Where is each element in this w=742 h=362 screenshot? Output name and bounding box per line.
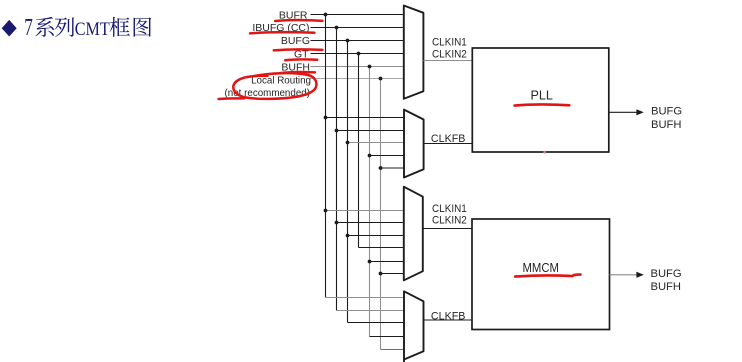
wire corner branch BUFG to mux M4 [348, 322, 404, 324]
junction IBUFG (CC) row B [335, 129, 339, 133]
arrowhead MMCM output [636, 272, 643, 278]
wire corner branch IBUFG (CC) to mux M4 [337, 310, 404, 312]
red underline IBUFG (CC) [250, 32, 315, 33]
junction Local Routing row C [379, 272, 383, 276]
PLL block [472, 48, 609, 152]
red ellipse around Local Routing (not recommended) [233, 73, 316, 99]
red underline MMCM [515, 275, 580, 277]
wire corner branch BUFH to mux M4 [370, 336, 404, 338]
wire IBUFG (CC) to mux M1 [311, 27, 404, 29]
wire BUFR to mux M1 [311, 14, 404, 16]
mux M2 (PLL CLKFB select) [404, 110, 424, 178]
mux M4 (MMCM CLKFB select) [404, 291, 424, 362]
red underline PLL [515, 105, 570, 106]
title text 7系列CMT框图 [24, 15, 151, 41]
red dot under PLL [543, 151, 546, 154]
wire branch BUFH to mux M3 [370, 261, 404, 263]
red underline BUFR [275, 19, 322, 22]
wire vertical bus Local Routing [380, 79, 382, 350]
wire vertical bus GT [358, 54, 360, 248]
junction BUFR row B [324, 116, 328, 120]
junction BUFH row B [368, 154, 372, 158]
svg-text:CLKFB: CLKFB [431, 133, 466, 145]
svg-text:CLKIN2: CLKIN2 [432, 214, 467, 226]
wire mux M1 output to PLL CLKIN [423, 60, 472, 62]
junction Local Routing row A [379, 77, 383, 81]
wire mux M3 output to MMCM CLKIN [423, 228, 472, 230]
svg-text:BUFG: BUFG [651, 106, 682, 118]
junction IBUFG (CC) row C [335, 221, 339, 225]
junction BUFH row C [368, 260, 372, 264]
mux M3 (MMCM CLKIN select) [404, 187, 423, 281]
wire BUFG to mux M1 [311, 40, 404, 42]
wire vertical bus BUFH [369, 67, 371, 337]
svg-text:BUFG: BUFG [651, 268, 682, 280]
svg-text:CLKIN1: CLKIN1 [432, 203, 467, 215]
wire corner branch Local Routing to mux M4 [381, 349, 404, 351]
junction Local Routing row B [379, 166, 383, 170]
svg-text:BUFH: BUFH [651, 281, 681, 293]
title bullet diamond [2, 20, 17, 37]
wire branch BUFH to mux M2 [370, 155, 404, 157]
wire Local Routing to mux M1 [311, 78, 404, 80]
wire mux M2 output to PLL CLKFB [424, 143, 473, 145]
junction GT row A [357, 52, 361, 56]
svg-text:7: 7 [24, 15, 33, 41]
wire branch BUFG to mux M2 [348, 142, 404, 144]
svg-text:CMT: CMT [75, 19, 110, 40]
mux M1 (PLL CLKIN select) [404, 6, 424, 99]
wire BUFH to mux M1 [311, 66, 404, 68]
red underline BUFH [280, 72, 315, 73]
wire branch Local Routing to mux M3 [381, 273, 404, 275]
svg-text:Local Routing: Local Routing [251, 76, 311, 87]
junction BUFG row B [346, 141, 350, 145]
wire branch BUFR to mux M2 [326, 117, 404, 119]
junction BUFG row C [346, 234, 350, 238]
wire branch BUFR to mux M3 [326, 210, 404, 212]
arrowhead PLL output [636, 109, 643, 115]
wire MMCM output [610, 274, 638, 276]
red underline GT [285, 58, 317, 61]
wire branch IBUFG (CC) to mux M2 [337, 130, 404, 132]
wire PLL output [609, 111, 637, 113]
svg-text:BUFH: BUFH [651, 119, 681, 131]
wire corner branch BUFR to mux M4 [326, 297, 404, 299]
svg-text:BUFG: BUFG [281, 35, 310, 47]
MMCM block [472, 219, 610, 330]
svg-text:CLKFB: CLKFB [431, 311, 466, 323]
wire mux M4 output to MMCM CLKFB [424, 319, 473, 321]
wire vertical bus IBUFG (CC) [336, 28, 338, 311]
svg-text:MMCM: MMCM [523, 261, 560, 275]
junction BUFG row A [346, 39, 350, 43]
junction BUFH row A [368, 65, 372, 69]
wire branch GT to mux M3 [359, 247, 404, 249]
wire branch Local Routing to mux M2 [381, 167, 404, 169]
junction BUFR row C [324, 209, 328, 213]
red underline BUFG [274, 49, 323, 50]
svg-text:CLKIN2: CLKIN2 [432, 49, 467, 61]
wire branch BUFG to mux M3 [348, 235, 404, 237]
wire branch IBUFG (CC) to mux M3 [337, 222, 404, 224]
wire vertical bus BUFG [347, 41, 349, 323]
junction IBUFG (CC) row A [335, 26, 339, 30]
svg-text:CLKIN1: CLKIN1 [432, 36, 467, 48]
wire GT to mux M1 [311, 53, 404, 55]
junction BUFR row A [324, 13, 328, 17]
red underline (not recommended) [219, 97, 245, 100]
svg-text:PLL: PLL [531, 89, 553, 103]
wire vertical bus BUFR [325, 15, 327, 298]
